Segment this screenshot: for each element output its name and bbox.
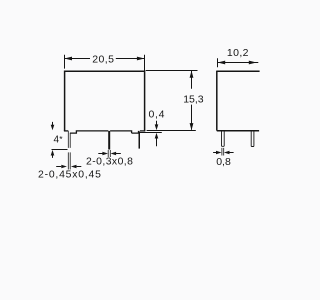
side view pin right — [251, 131, 254, 146]
pin 2 (center coil pin) — [108, 131, 110, 150]
dimension 20,5 line — [65, 58, 145, 60]
dimension 0,4 extension line (standoff foot) — [140, 132, 162, 134]
dimension 15,3 extension lines — [146, 71, 198, 131]
dimension 10,2 extension line — [217, 58, 219, 67]
svg-text:0,8: 0,8 — [216, 156, 231, 168]
svg-text:20,5: 20,5 — [92, 54, 114, 66]
relay body front view outline — [65, 71, 145, 132]
dimension 0,8 extension lines — [222, 148, 224, 156]
dimension 20,5 arrowheads — [64, 57, 72, 61]
dimension 10,2 line — [218, 62, 259, 64]
svg-text:2-0,45x0,45: 2-0,45x0,45 — [38, 170, 102, 181]
svg-text:0,4: 0,4 — [149, 108, 166, 120]
pin end extension line for dim 4 — [52, 149, 68, 151]
dimension 0,8 line and arrows — [213, 152, 234, 154]
dimension 2-0,45x0,45 extension lines — [68, 152, 70, 169]
dimension 0,4 arrows — [156, 121, 158, 147]
dimension 15,3 line — [191, 71, 193, 130]
svg-text:15,3: 15,3 — [183, 93, 204, 105]
dimension 2-0,3x0,8 line and arrows — [98, 153, 121, 155]
dimension 2-0,45x0,45 line and arrows — [56, 166, 81, 168]
dimension 2-0,3x0,8 extension lines — [108, 150, 110, 157]
dimension 4 arrows (pin length) — [52, 122, 54, 158]
pin 1 (left, 0.45x0.45) — [68, 131, 70, 148]
dimension 15,3 arrowheads — [190, 71, 194, 78]
dimension 10,2 arrowheads — [218, 61, 226, 65]
svg-text:10,2: 10,2 — [227, 47, 249, 59]
relay body side view outline (open right) — [217, 71, 260, 131]
side view pin left — [222, 131, 225, 146]
svg-text:2-0,3x0,8: 2-0,3x0,8 — [86, 156, 133, 167]
pin 3 (right) — [139, 132, 141, 149]
dimension 20,5 extension lines — [65, 55, 145, 73]
front view bottom edge with standoff notches — [64, 131, 145, 133]
